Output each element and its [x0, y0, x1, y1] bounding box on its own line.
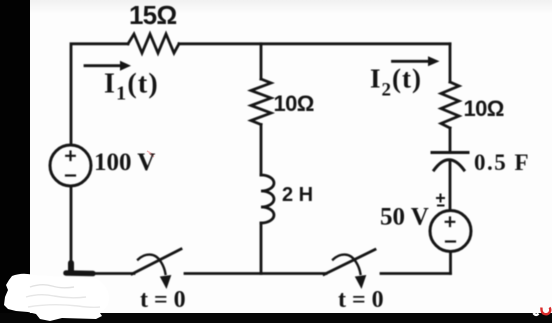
resistor R2 10ohm zigzag [251, 79, 271, 125]
current arrow I1 [85, 64, 122, 67]
voltage source V2 50V circle [430, 211, 471, 252]
inductor L1 2H coil [261, 175, 274, 223]
wire top to right corner [179, 42, 450, 45]
wire top-left segment [71, 44, 128, 145]
capacitor C1 curved plate [434, 160, 464, 170]
resistor R3 10ohm zigzag [441, 82, 459, 128]
current arrow I2 head [428, 56, 440, 66]
node bottom-left corner blob [66, 270, 93, 276]
svg-text:I1(t): I1(t) [104, 69, 159, 105]
V2 minus sign [446, 240, 455, 242]
V2 external polarity minus [438, 205, 444, 207]
wire source to bottom right corner [449, 252, 452, 274]
svg-text:t = 0: t = 0 [140, 287, 186, 313]
resistor R1 15ohm zigzag [128, 34, 179, 53]
svg-text:15Ω: 15Ω [129, 0, 176, 30]
wire middle mid [260, 125, 263, 176]
V1 minus sign [66, 174, 75, 176]
svg-text:100 V: 100 V [94, 149, 155, 176]
voltage source V1 100V circle [50, 145, 91, 186]
wire right above capacitor [449, 128, 452, 151]
capacitor C1 top plate [432, 151, 468, 154]
V2 plus sign [446, 218, 455, 227]
switch S2 arrowhead [355, 275, 367, 289]
switch S1 closing arc [138, 255, 166, 274]
wire bottom middle segment [185, 272, 326, 275]
wire right branch top [449, 44, 452, 82]
wire bottom-left to switch S1 [65, 272, 134, 275]
wire bottom right segment [381, 272, 451, 275]
svg-text:0.5 F: 0.5 F [474, 150, 530, 175]
switch S1 blade [132, 249, 181, 274]
V1 plus sign [66, 152, 75, 161]
svg-text:2 H: 2 H [282, 184, 313, 206]
wire capacitor to source [449, 160, 452, 210]
svg-text:50 V: 50 V [380, 204, 429, 231]
V2 external polarity plus [437, 195, 444, 202]
svg-text:10Ω: 10Ω [464, 96, 504, 121]
svg-text:10Ω: 10Ω [274, 91, 314, 116]
svg-text:t = 0: t = 0 [338, 287, 384, 313]
switch S2 blade [324, 250, 375, 275]
current arrow I1 head [120, 61, 131, 71]
switch S2 closing arc [333, 255, 361, 274]
wire middle branch top [260, 44, 263, 79]
current arrow I2 [393, 60, 431, 63]
wire left branch lower [70, 187, 73, 274]
wire middle bottom [260, 223, 263, 274]
switch S1 arrowhead [160, 275, 172, 289]
